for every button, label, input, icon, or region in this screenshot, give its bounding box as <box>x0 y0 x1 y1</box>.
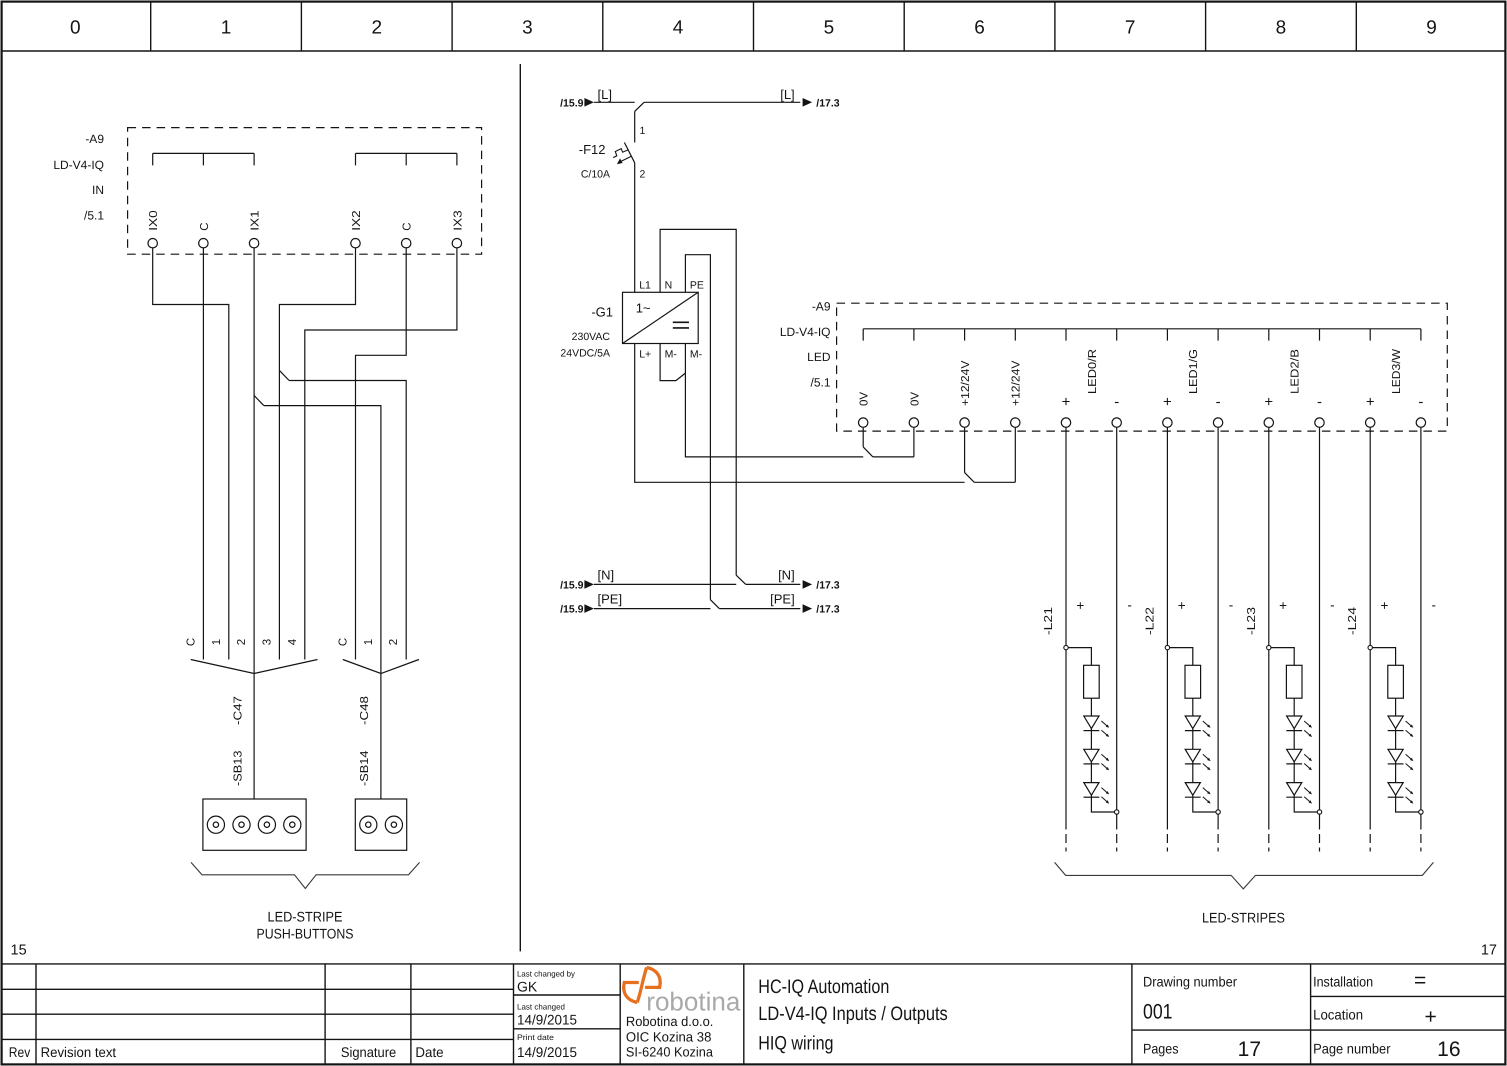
svg-text:HIQ wiring: HIQ wiring <box>758 1033 833 1055</box>
svg-text:[N]: [N] <box>598 567 615 582</box>
wire C right to SB14 conductor C <box>356 248 407 660</box>
svg-text:Print date: Print date <box>517 1033 555 1042</box>
wire G1 L+ to +12/24V terminals <box>635 344 1016 483</box>
power supply -G1 230VAC 24VDC/5A <box>560 280 704 361</box>
svg-text:14/9/2015: 14/9/2015 <box>517 1044 577 1060</box>
LED 3 of -L22 <box>1185 783 1211 804</box>
svg-text:+: + <box>1381 598 1389 613</box>
wire LEDs to minus node <box>1091 797 1114 812</box>
svg-text:PE: PE <box>690 280 704 292</box>
terminal - #10 <box>1315 394 1324 428</box>
svg-text:-L21: -L21 <box>1043 607 1055 635</box>
svg-text:1: 1 <box>211 639 223 645</box>
terminal - #8 <box>1213 394 1222 428</box>
svg-text:16: 16 <box>1437 1038 1460 1061</box>
svg-text:+: + <box>1062 394 1071 411</box>
terminal + #9 <box>1264 394 1273 428</box>
svg-text:[PE]: [PE] <box>770 592 795 607</box>
cable marker -C47 <box>191 660 318 800</box>
svg-text:=: = <box>1414 969 1426 992</box>
svg-text:IX0: IX0 <box>148 210 160 231</box>
svg-text:-A9: -A9 <box>812 300 831 314</box>
LED 1 of -L21 <box>1084 716 1110 749</box>
wire IX2 to SB13 conductor 3 <box>279 248 355 660</box>
svg-text:9: 9 <box>1426 18 1437 39</box>
svg-text:Pages: Pages <box>1143 1041 1179 1057</box>
central divider between circuit sections <box>519 64 521 951</box>
svg-text:IX2: IX2 <box>351 210 363 231</box>
terminal 0V #1 <box>859 392 871 428</box>
device box -A9 LD-V4-IQ IN /5.1 <box>53 128 481 255</box>
svg-text:230VAC: 230VAC <box>572 331 611 343</box>
svg-text:[N]: [N] <box>778 567 795 582</box>
LED 2 of -L21 <box>1084 749 1110 782</box>
branch node - <box>1115 810 1119 814</box>
connector bracket inputs IX2..IX3 <box>356 153 457 165</box>
wire resistor to LEDs <box>1090 698 1092 716</box>
svg-text:/15.9: /15.9 <box>560 604 584 616</box>
svg-text:Location: Location <box>1313 1006 1363 1022</box>
svg-text:[PE]: [PE] <box>598 592 623 607</box>
wire IX1 to SB13 conductor 2 <box>253 248 255 674</box>
svg-text:/17.3: /17.3 <box>816 579 840 591</box>
LED 2 of -L23 <box>1286 749 1312 782</box>
svg-text:-F12: -F12 <box>579 142 606 157</box>
svg-text:-C47: -C47 <box>232 696 244 725</box>
revision table labels <box>9 1044 444 1060</box>
svg-text:N: N <box>665 280 673 292</box>
net arrow [PE] to /17.3 <box>770 592 840 616</box>
svg-text:C: C <box>185 638 197 646</box>
svg-text:HC-IQ Automation: HC-IQ Automation <box>758 976 889 998</box>
connector bracket LED outputs <box>863 329 1421 341</box>
terminal C at x=406 <box>402 222 414 247</box>
terminal - #12 <box>1416 394 1425 428</box>
svg-text:2: 2 <box>236 639 248 645</box>
LED 3 of -L24 <box>1388 783 1414 804</box>
svg-text:-: - <box>1418 394 1423 411</box>
svg-text:IX1: IX1 <box>250 210 262 231</box>
LED 1 of -L23 <box>1286 716 1312 749</box>
svg-text:Installation: Installation <box>1313 974 1373 990</box>
svg-text:+: + <box>1366 394 1375 411</box>
wire IX3 to SB13 conductor 4 <box>305 248 457 660</box>
net arrow [N] from /15.9 <box>560 567 614 591</box>
wire C to SB13 conductor C <box>202 248 204 660</box>
svg-text:2: 2 <box>388 639 400 645</box>
terminal + #7 <box>1163 394 1172 428</box>
svg-text:Robotina d.o.o.: Robotina d.o.o. <box>626 1014 714 1029</box>
svg-text:C/10A: C/10A <box>581 169 610 181</box>
svg-text:/5.1: /5.1 <box>810 376 830 390</box>
svg-text:24VDC/5A: 24VDC/5A <box>560 348 610 360</box>
svg-text:0: 0 <box>70 18 81 39</box>
svg-text:-L23: -L23 <box>1246 607 1258 635</box>
net arrow [L] from /15.9 <box>560 87 612 110</box>
svg-text:4: 4 <box>673 18 684 39</box>
wire IX0 to SB13 conductor 1 <box>153 248 229 660</box>
svg-text:-: - <box>1432 597 1437 612</box>
terminal + #11 <box>1366 394 1375 428</box>
wire F12 pin2 to G1 L1 <box>634 163 636 292</box>
svg-text:3: 3 <box>261 639 273 645</box>
svg-text:L1: L1 <box>639 280 651 292</box>
net arrow [N] to /17.3 <box>778 567 840 591</box>
LED 1 of -L24 <box>1388 716 1414 749</box>
svg-text:+12/24V: +12/24V <box>1011 360 1023 406</box>
wire G1 N to net N junction <box>660 229 746 584</box>
svg-text:GK: GK <box>517 979 538 995</box>
device box -A9 LD-V4-IQ LED /5.1 <box>780 300 1447 432</box>
branch node + <box>1368 645 1372 649</box>
svg-text:LED2/B: LED2/B <box>1290 349 1302 394</box>
Robotina logo <box>624 968 741 1017</box>
terminal C at x=203 <box>199 222 211 247</box>
svg-text:Drawing number: Drawing number <box>1143 974 1237 990</box>
svg-text:C: C <box>338 638 350 646</box>
svg-text:001: 001 <box>1143 1000 1173 1023</box>
led stripe -L24 <box>1347 597 1436 814</box>
svg-text:14/9/2015: 14/9/2015 <box>517 1011 577 1027</box>
branch node - <box>1216 810 1220 814</box>
svg-text:LED0/R: LED0/R <box>1087 349 1099 394</box>
svg-text:Signature: Signature <box>341 1044 396 1060</box>
change-log cells <box>517 970 577 1061</box>
svg-text:-: - <box>1330 597 1335 612</box>
led stripe -L22 <box>1144 597 1233 814</box>
svg-text:+: + <box>1178 598 1186 613</box>
wires LED outputs down to stripes <box>1066 427 1421 852</box>
terminal + #5 <box>1061 394 1070 428</box>
svg-text:1: 1 <box>363 639 375 645</box>
svg-text:-C48: -C48 <box>359 696 371 725</box>
terminal IX2 at x=356 <box>351 210 363 248</box>
junction IX1 branch to SB14 conductor 1 <box>254 396 381 674</box>
svg-text:1: 1 <box>640 125 646 137</box>
terminal +12/24V #4 <box>1011 360 1023 427</box>
terminal +12/24V #3 <box>960 360 972 427</box>
title block <box>2 964 1505 1064</box>
svg-text:+: + <box>1279 598 1287 613</box>
svg-text:/15.9: /15.9 <box>560 97 584 109</box>
svg-text:SI-6240 Kozina: SI-6240 Kozina <box>626 1045 713 1060</box>
svg-text:17: 17 <box>1238 1038 1261 1061</box>
svg-text:LED3/W: LED3/W <box>1391 349 1403 394</box>
svg-text:0V: 0V <box>859 392 871 406</box>
svg-text:Revision text: Revision text <box>41 1044 117 1060</box>
svg-text:+: + <box>1425 1006 1437 1029</box>
svg-text:3: 3 <box>522 18 533 39</box>
svg-text:17: 17 <box>1481 942 1497 958</box>
resistor (-L21) <box>1084 665 1100 698</box>
terminal IX1 at x=254 <box>249 210 261 248</box>
branch wire to resistor <box>1068 648 1091 666</box>
drawing titles <box>758 976 948 1055</box>
svg-text:+: + <box>1264 394 1273 411</box>
svg-text:LD-V4-IQ Inputs / Outputs: LD-V4-IQ Inputs / Outputs <box>758 1003 948 1025</box>
svg-text:L+: L+ <box>639 349 651 361</box>
svg-text:[L]: [L] <box>780 87 794 102</box>
LED 3 of -L21 <box>1084 783 1110 804</box>
svg-text:1: 1 <box>221 18 232 39</box>
wire resistor to LEDs <box>1192 698 1194 716</box>
company address <box>626 1014 714 1060</box>
branch node - <box>1419 810 1423 814</box>
wire G1 M- to 0V terminals <box>685 344 914 457</box>
svg-text:5: 5 <box>824 18 835 39</box>
svg-text:4: 4 <box>287 638 299 645</box>
svg-text:LED1/G: LED1/G <box>1188 349 1200 394</box>
branch node + <box>1064 645 1068 649</box>
svg-text:8: 8 <box>1276 18 1287 39</box>
svg-text:-SB14: -SB14 <box>359 750 371 786</box>
svg-text:M-: M- <box>690 349 703 361</box>
branch node + <box>1267 645 1271 649</box>
installation / location / page number cells <box>1313 969 1460 1061</box>
svg-text:-SB13: -SB13 <box>232 751 244 787</box>
svg-text:[L]: [L] <box>598 87 612 102</box>
svg-text:IX3: IX3 <box>452 210 464 231</box>
svg-text:6: 6 <box>974 18 985 39</box>
cable marker -C48 <box>343 660 419 800</box>
svg-text:LD-V4-IQ: LD-V4-IQ <box>53 158 104 172</box>
net arrow [PE] from /15.9 <box>560 592 622 616</box>
svg-text:LED-STRIPES: LED-STRIPES <box>1202 910 1285 926</box>
resistor (-L23) <box>1286 665 1302 698</box>
svg-text:-: - <box>1216 394 1221 411</box>
drawing number cell <box>1143 974 1261 1062</box>
svg-text:-L22: -L22 <box>1144 607 1156 635</box>
svg-text:1~: 1~ <box>636 301 651 316</box>
push-button unit -SB13 <box>203 751 306 851</box>
svg-text:15: 15 <box>11 943 27 959</box>
svg-text:Rev: Rev <box>9 1044 31 1060</box>
connector bracket inputs IX0..IX1 <box>153 153 254 165</box>
branch node + <box>1165 645 1169 649</box>
wire G1 PE to net PE junction <box>685 255 719 609</box>
svg-text:2: 2 <box>640 169 646 181</box>
wire LEDs to minus node <box>1396 797 1419 812</box>
junction IX2 branch to SB14 conductor 2 <box>279 370 406 659</box>
svg-text:M-: M- <box>665 349 678 361</box>
terminal IX3 at x=457 <box>452 210 464 248</box>
led stripe -L21 <box>1043 597 1132 814</box>
push-button unit -SB14 <box>355 750 406 850</box>
svg-text:+: + <box>1163 394 1172 411</box>
LED 3 of -L23 <box>1286 783 1312 804</box>
svg-text:IN: IN <box>92 183 104 197</box>
branch wire to resistor <box>1170 648 1193 666</box>
LED 2 of -L22 <box>1185 749 1211 782</box>
branch wire to resistor <box>1271 648 1294 666</box>
terminal - #6 <box>1112 394 1121 428</box>
svg-text:OIC Kozina 38: OIC Kozina 38 <box>626 1029 712 1044</box>
svg-text:-A9: -A9 <box>85 132 104 146</box>
resistor (-L24) <box>1388 665 1404 698</box>
resistor (-L22) <box>1185 665 1201 698</box>
svg-text:-: - <box>1114 394 1119 411</box>
LED 2 of -L24 <box>1388 749 1414 782</box>
wire LEDs to minus node <box>1294 797 1317 812</box>
svg-text:+12/24V: +12/24V <box>960 360 972 406</box>
wire net N <box>594 583 800 585</box>
terminal 0V #2 <box>909 392 921 428</box>
svg-text:-L24: -L24 <box>1347 606 1359 635</box>
svg-text:/15.9: /15.9 <box>560 579 584 591</box>
brace and caption LED-STRIPES <box>1055 862 1434 925</box>
terminal IX0 at x=153 <box>148 210 160 248</box>
branch wire to resistor <box>1372 648 1395 666</box>
svg-text:/17.3: /17.3 <box>816 604 840 616</box>
svg-text:C: C <box>402 222 414 230</box>
wire resistor to LEDs <box>1293 698 1295 716</box>
LED 1 of -L22 <box>1185 716 1211 749</box>
svg-text:+: + <box>1076 598 1084 613</box>
svg-text:-: - <box>1317 394 1322 411</box>
svg-text:-G1: -G1 <box>591 305 613 320</box>
wire net L <box>594 102 800 111</box>
svg-text:/17.3: /17.3 <box>816 97 840 109</box>
svg-text:Last changed: Last changed <box>517 1003 565 1012</box>
svg-text:-: - <box>1127 597 1132 612</box>
svg-text:LED-STRIPE: LED-STRIPE <box>268 909 343 925</box>
wire G1 M- bridge <box>660 344 685 381</box>
brace and caption LED-STRIPE PUSH-BUTTONS <box>191 862 420 941</box>
svg-text:7: 7 <box>1125 18 1136 39</box>
circuit breaker -F12 C/10A <box>579 111 646 180</box>
wire resistor to LEDs <box>1395 698 1397 716</box>
led stripe -L23 <box>1246 597 1335 814</box>
svg-text:LED: LED <box>807 350 831 364</box>
wire LEDs to minus node <box>1193 797 1216 812</box>
svg-text:PUSH-BUTTONS: PUSH-BUTTONS <box>257 926 354 942</box>
net arrow [L] to /17.3 <box>780 87 840 110</box>
svg-text:-: - <box>1229 597 1234 612</box>
svg-text:Page number: Page number <box>1313 1041 1391 1057</box>
svg-text:0V: 0V <box>909 392 921 406</box>
svg-text:Date: Date <box>415 1044 443 1060</box>
svg-text:2: 2 <box>372 18 383 39</box>
svg-text:robotina: robotina <box>646 987 741 1017</box>
svg-text:LD-V4-IQ: LD-V4-IQ <box>780 325 831 339</box>
svg-text:/5.1: /5.1 <box>84 209 104 223</box>
branch node - <box>1317 810 1321 814</box>
wire net PE <box>594 608 800 610</box>
svg-text:Last changed by: Last changed by <box>517 970 575 979</box>
svg-text:C: C <box>199 222 211 230</box>
